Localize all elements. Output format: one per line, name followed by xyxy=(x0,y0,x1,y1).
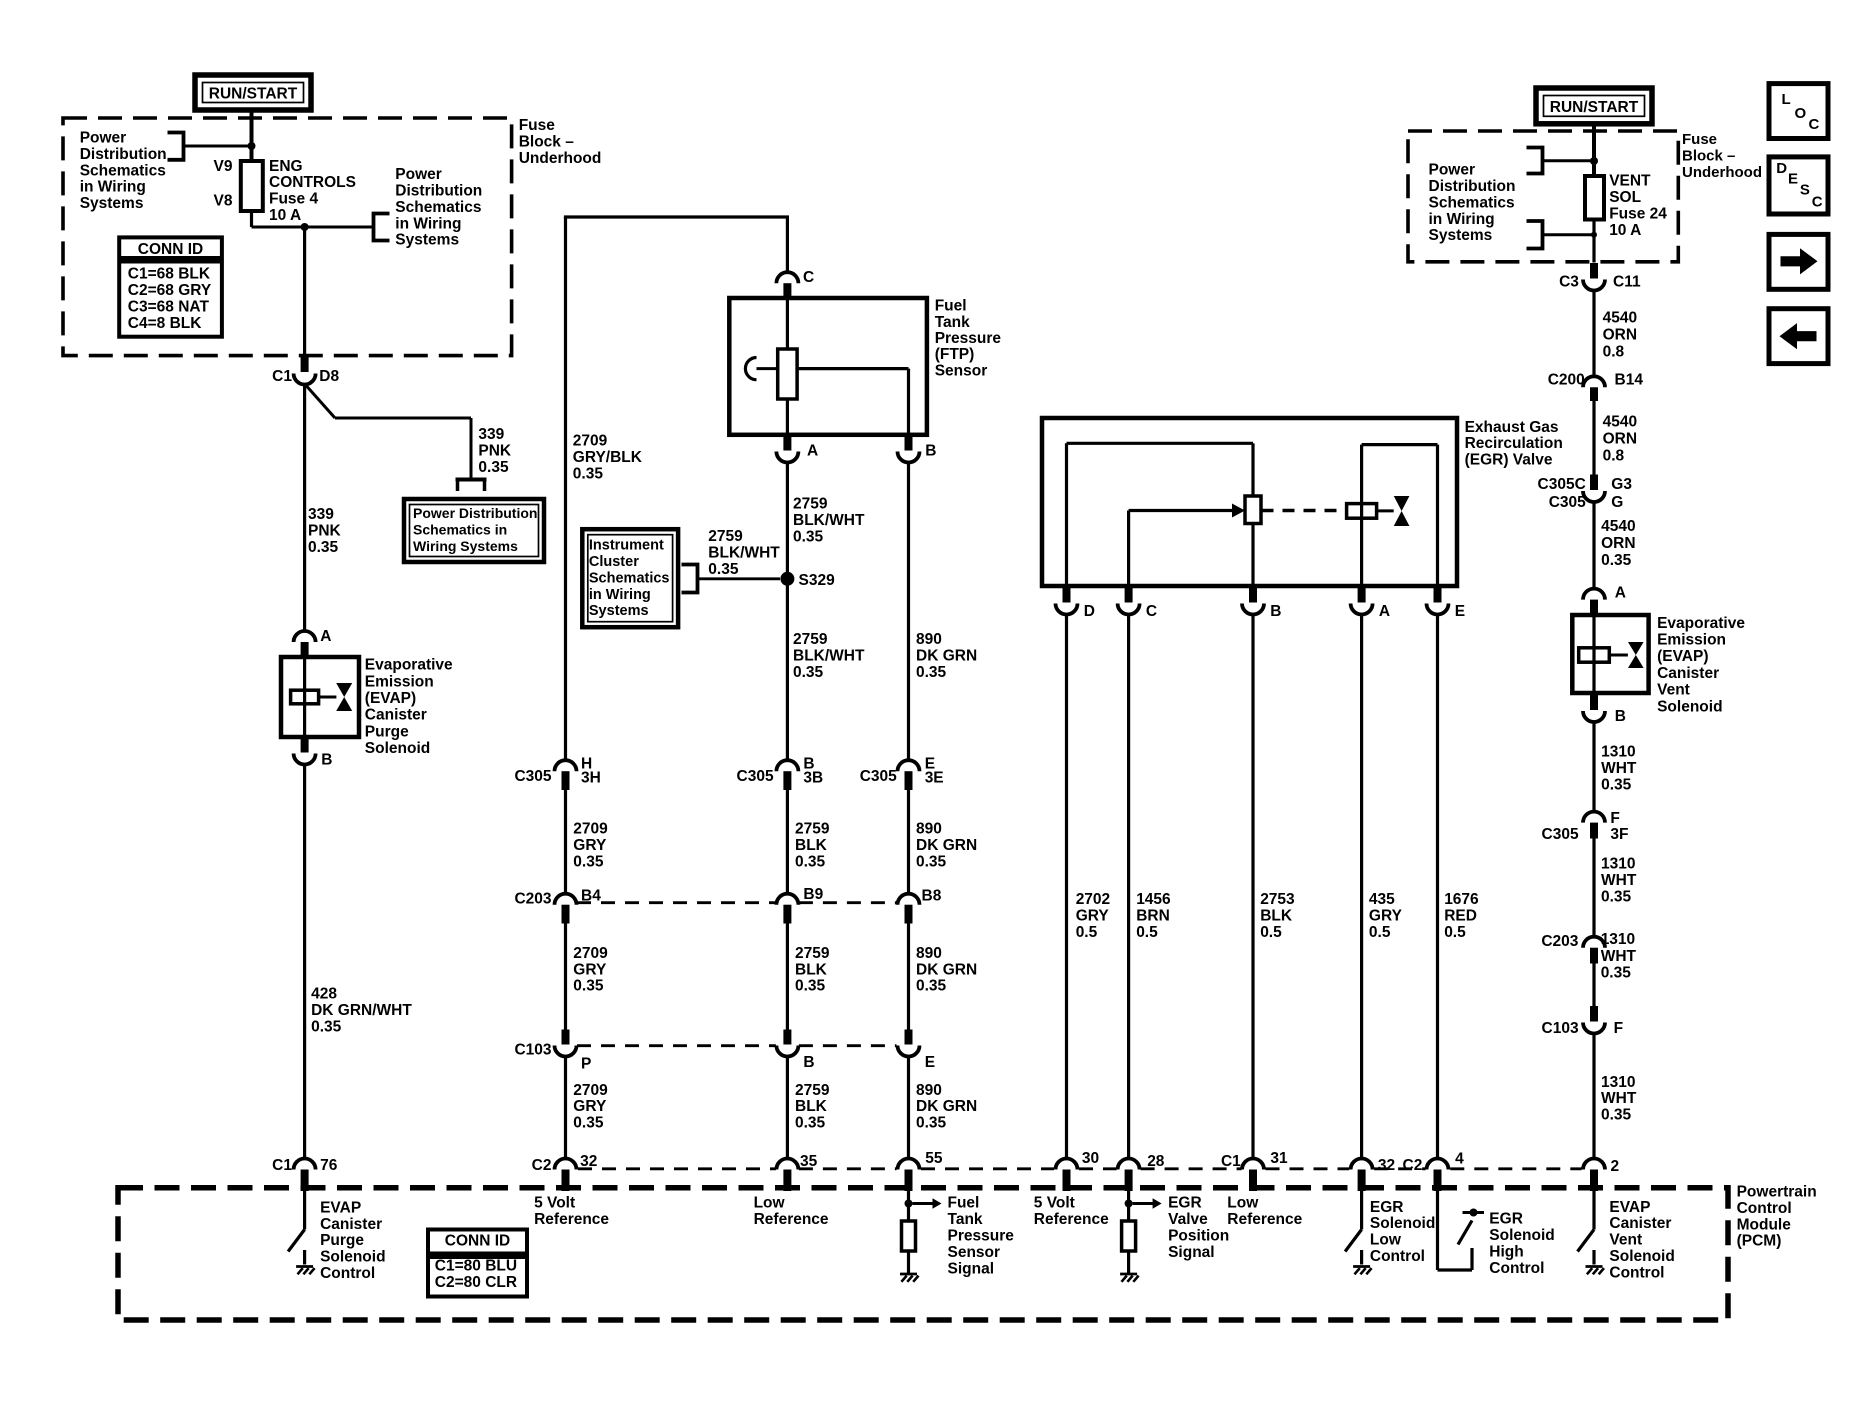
svg-text:Fuse: Fuse xyxy=(1682,131,1717,148)
svg-text:Power: Power xyxy=(1429,162,1476,179)
svg-text:Control: Control xyxy=(1737,1200,1792,1217)
svg-text:0.5: 0.5 xyxy=(1369,924,1391,941)
svg-text:B: B xyxy=(1615,708,1626,725)
svg-text:2709: 2709 xyxy=(573,1082,608,1099)
svg-text:C1: C1 xyxy=(272,1157,292,1174)
svg-text:76: 76 xyxy=(320,1157,338,1174)
svg-text:55: 55 xyxy=(925,1150,943,1167)
svg-text:PNK: PNK xyxy=(308,523,342,540)
svg-text:Canister: Canister xyxy=(320,1216,382,1233)
svg-text:0.35: 0.35 xyxy=(311,1018,342,1035)
svg-text:0.35: 0.35 xyxy=(793,664,824,681)
svg-text:0.5: 0.5 xyxy=(1260,924,1282,941)
svg-text:0.35: 0.35 xyxy=(573,465,604,482)
svg-text:B: B xyxy=(321,752,332,769)
svg-text:Systems: Systems xyxy=(1429,227,1493,244)
svg-text:Block –: Block – xyxy=(519,133,575,150)
svg-text:C2: C2 xyxy=(532,1157,552,1174)
svg-text:Solenoid: Solenoid xyxy=(1609,1248,1674,1265)
svg-text:CONN ID: CONN ID xyxy=(138,241,203,258)
svg-text:890: 890 xyxy=(916,1082,942,1099)
svg-text:WHT: WHT xyxy=(1601,948,1637,965)
svg-text:Control: Control xyxy=(1489,1260,1544,1277)
svg-text:C200: C200 xyxy=(1548,371,1585,388)
svg-text:Tank: Tank xyxy=(948,1211,983,1228)
svg-text:C1: C1 xyxy=(1221,1153,1241,1170)
svg-text:VENT: VENT xyxy=(1609,173,1651,190)
svg-text:Low: Low xyxy=(1370,1232,1402,1249)
svg-text:4540: 4540 xyxy=(1601,518,1635,535)
svg-text:5 Volt: 5 Volt xyxy=(1034,1195,1075,1212)
svg-text:ORN: ORN xyxy=(1601,535,1635,552)
svg-text:GRY: GRY xyxy=(573,961,607,978)
svg-text:Pressure: Pressure xyxy=(935,330,1002,347)
svg-text:Signal: Signal xyxy=(1168,1244,1215,1261)
svg-text:0.35: 0.35 xyxy=(1601,888,1632,905)
svg-text:Schematics: Schematics xyxy=(395,199,481,216)
svg-text:Solenoid: Solenoid xyxy=(365,740,430,757)
svg-text:PNK: PNK xyxy=(478,443,512,460)
svg-text:EVAP: EVAP xyxy=(1609,1199,1650,1216)
svg-text:O: O xyxy=(1795,105,1807,122)
svg-text:B: B xyxy=(803,1054,814,1071)
svg-text:0.35: 0.35 xyxy=(916,1115,947,1132)
svg-text:BLK: BLK xyxy=(795,961,828,978)
svg-text:ORN: ORN xyxy=(1603,327,1637,344)
svg-text:in Wiring: in Wiring xyxy=(80,179,146,196)
svg-text:E: E xyxy=(1788,171,1798,188)
svg-text:EGR: EGR xyxy=(1489,1211,1523,1228)
svg-text:ORN: ORN xyxy=(1603,431,1637,448)
svg-text:Reference: Reference xyxy=(1227,1211,1302,1228)
svg-text:WHT: WHT xyxy=(1601,872,1637,889)
svg-text:in Wiring: in Wiring xyxy=(1429,211,1495,228)
svg-text:B: B xyxy=(1270,603,1281,620)
svg-text:0.5: 0.5 xyxy=(1076,924,1098,941)
svg-text:2759: 2759 xyxy=(795,945,830,962)
svg-text:Distribution: Distribution xyxy=(395,183,482,200)
svg-text:Systems: Systems xyxy=(589,603,649,619)
svg-text:Schematics: Schematics xyxy=(80,162,166,179)
svg-text:0.35: 0.35 xyxy=(308,539,339,556)
svg-text:P: P xyxy=(581,1055,591,1072)
svg-text:D8: D8 xyxy=(319,368,339,385)
svg-text:C3=68 NAT: C3=68 NAT xyxy=(128,299,210,316)
svg-text:C305: C305 xyxy=(1549,494,1586,511)
svg-text:C2=80 CLR: C2=80 CLR xyxy=(435,1274,517,1291)
svg-text:BLK/WHT: BLK/WHT xyxy=(793,648,865,665)
svg-text:0.35: 0.35 xyxy=(1601,552,1632,569)
svg-text:RUN/START: RUN/START xyxy=(1550,99,1639,116)
svg-text:0.5: 0.5 xyxy=(1136,924,1158,941)
svg-text:D: D xyxy=(1776,160,1787,177)
svg-text:C203: C203 xyxy=(1541,933,1578,950)
svg-text:435: 435 xyxy=(1369,891,1395,908)
svg-text:2709: 2709 xyxy=(573,945,608,962)
svg-text:Control: Control xyxy=(1370,1248,1425,1265)
svg-text:Vent: Vent xyxy=(1609,1232,1642,1249)
svg-text:Cluster: Cluster xyxy=(589,554,639,570)
svg-text:Valve: Valve xyxy=(1168,1211,1208,1228)
svg-text:C103: C103 xyxy=(514,1041,551,1058)
svg-text:(EVAP): (EVAP) xyxy=(1657,648,1708,665)
svg-text:Instrument: Instrument xyxy=(589,538,664,554)
svg-text:890: 890 xyxy=(916,631,942,648)
svg-text:0.35: 0.35 xyxy=(573,978,604,995)
svg-text:C103: C103 xyxy=(1542,1020,1579,1037)
svg-text:2753: 2753 xyxy=(1260,891,1295,908)
svg-text:in Wiring: in Wiring xyxy=(395,215,461,232)
svg-text:0.35: 0.35 xyxy=(795,978,826,995)
svg-text:F: F xyxy=(1610,810,1619,827)
svg-text:C203: C203 xyxy=(514,891,551,908)
svg-text:C305C: C305C xyxy=(1538,476,1586,493)
svg-text:CONTROLS: CONTROLS xyxy=(269,174,356,191)
svg-text:0.35: 0.35 xyxy=(916,853,947,870)
svg-text:0.35: 0.35 xyxy=(708,561,739,578)
svg-text:Exhaust Gas: Exhaust Gas xyxy=(1465,419,1559,436)
svg-text:Wiring Systems: Wiring Systems xyxy=(413,538,518,554)
svg-text:Power: Power xyxy=(80,130,127,147)
svg-text:WHT: WHT xyxy=(1601,760,1637,777)
svg-text:Low: Low xyxy=(754,1195,786,1212)
svg-text:RUN/START: RUN/START xyxy=(209,86,298,103)
svg-text:339: 339 xyxy=(478,426,504,443)
svg-text:WHT: WHT xyxy=(1601,1090,1637,1107)
svg-text:4540: 4540 xyxy=(1603,414,1637,431)
svg-text:Vent: Vent xyxy=(1657,682,1690,699)
svg-text:RED: RED xyxy=(1444,907,1477,924)
svg-text:0.35: 0.35 xyxy=(478,459,509,476)
svg-text:0.35: 0.35 xyxy=(795,853,826,870)
svg-text:BLK/WHT: BLK/WHT xyxy=(793,512,865,529)
svg-text:Sensor: Sensor xyxy=(935,362,988,379)
svg-text:GRY: GRY xyxy=(573,837,607,854)
svg-text:Sensor: Sensor xyxy=(948,1244,1001,1261)
svg-text:Signal: Signal xyxy=(948,1260,995,1277)
svg-text:Underhood: Underhood xyxy=(1682,164,1762,181)
svg-text:A: A xyxy=(320,628,331,645)
svg-text:E: E xyxy=(1455,603,1465,620)
svg-text:C3: C3 xyxy=(1559,274,1579,291)
svg-text:Tank: Tank xyxy=(935,314,970,331)
svg-text:1310: 1310 xyxy=(1601,744,1635,761)
svg-text:Recirculation: Recirculation xyxy=(1465,435,1563,452)
svg-text:E: E xyxy=(925,1054,935,1071)
svg-text:F: F xyxy=(1614,1020,1623,1037)
svg-text:C1=68 BLK: C1=68 BLK xyxy=(128,265,211,282)
svg-text:31: 31 xyxy=(1270,1150,1288,1167)
svg-text:32: 32 xyxy=(1378,1157,1395,1174)
svg-text:2759: 2759 xyxy=(795,821,830,838)
svg-text:EGR: EGR xyxy=(1168,1195,1202,1212)
svg-text:4: 4 xyxy=(1455,1151,1464,1168)
svg-text:Fuse 24: Fuse 24 xyxy=(1609,206,1667,223)
svg-text:DK GRN: DK GRN xyxy=(916,648,977,665)
svg-text:Emission: Emission xyxy=(1657,632,1726,649)
svg-text:Solenoid: Solenoid xyxy=(1370,1215,1435,1232)
svg-text:BLK/WHT: BLK/WHT xyxy=(708,545,780,562)
svg-text:1456: 1456 xyxy=(1136,891,1171,908)
svg-text:Distribution: Distribution xyxy=(1429,178,1516,195)
svg-text:Schematics: Schematics xyxy=(1429,194,1515,211)
svg-text:Canister: Canister xyxy=(365,707,427,724)
svg-text:Purge: Purge xyxy=(365,723,409,740)
svg-text:0.5: 0.5 xyxy=(1444,924,1466,941)
svg-text:A: A xyxy=(1615,585,1626,602)
svg-text:GRY: GRY xyxy=(1076,907,1110,924)
svg-text:Underhood: Underhood xyxy=(519,150,602,167)
svg-text:B14: B14 xyxy=(1615,371,1644,388)
svg-text:0.35: 0.35 xyxy=(573,853,604,870)
svg-text:2759: 2759 xyxy=(708,528,743,545)
svg-text:10 A: 10 A xyxy=(269,207,301,224)
svg-text:GRY: GRY xyxy=(573,1098,607,1115)
svg-text:(PCM): (PCM) xyxy=(1737,1233,1782,1250)
svg-text:Block –: Block – xyxy=(1682,148,1735,165)
svg-text:Fuel: Fuel xyxy=(935,298,967,315)
svg-text:30: 30 xyxy=(1082,1150,1099,1167)
svg-text:SOL: SOL xyxy=(1609,189,1641,206)
svg-text:Solenoid: Solenoid xyxy=(1489,1227,1554,1244)
svg-text:5 Volt: 5 Volt xyxy=(534,1195,575,1212)
svg-text:2709: 2709 xyxy=(573,433,608,450)
svg-text:3E: 3E xyxy=(925,769,944,786)
svg-text:DK GRN/WHT: DK GRN/WHT xyxy=(311,1002,412,1019)
svg-text:Distribution: Distribution xyxy=(80,146,167,163)
svg-text:28: 28 xyxy=(1147,1153,1165,1170)
svg-text:C11: C11 xyxy=(1613,274,1641,291)
svg-text:3B: 3B xyxy=(803,769,823,786)
svg-text:C305: C305 xyxy=(514,768,551,785)
svg-text:1676: 1676 xyxy=(1444,891,1479,908)
svg-text:V8: V8 xyxy=(214,193,233,210)
svg-text:3H: 3H xyxy=(581,769,601,786)
svg-text:L: L xyxy=(1782,91,1791,108)
svg-text:BLK: BLK xyxy=(1260,907,1293,924)
svg-text:C1=80 BLU: C1=80 BLU xyxy=(435,1258,517,1275)
svg-text:0.8: 0.8 xyxy=(1603,344,1625,361)
svg-text:428: 428 xyxy=(311,986,337,1003)
svg-text:S: S xyxy=(1800,182,1810,199)
svg-text:Module: Module xyxy=(1737,1216,1792,1233)
svg-text:GRY: GRY xyxy=(1369,907,1403,924)
svg-text:B: B xyxy=(925,443,936,460)
svg-text:EVAP: EVAP xyxy=(320,1199,361,1216)
svg-text:2: 2 xyxy=(1611,1158,1620,1175)
svg-text:C305: C305 xyxy=(860,768,897,785)
svg-text:Control: Control xyxy=(1609,1264,1664,1281)
svg-text:in Wiring: in Wiring xyxy=(589,587,651,603)
svg-text:(EGR) Valve: (EGR) Valve xyxy=(1465,452,1553,469)
svg-text:4540: 4540 xyxy=(1603,310,1637,327)
svg-text:32: 32 xyxy=(580,1153,597,1170)
svg-text:C1: C1 xyxy=(272,368,292,385)
svg-text:0.35: 0.35 xyxy=(1601,777,1632,794)
svg-text:Canister: Canister xyxy=(1609,1215,1671,1232)
svg-text:Evaporative: Evaporative xyxy=(365,657,453,674)
svg-text:D: D xyxy=(1084,603,1095,620)
svg-text:2759: 2759 xyxy=(793,496,828,513)
svg-text:Powertrain: Powertrain xyxy=(1737,1184,1817,1201)
svg-text:0.35: 0.35 xyxy=(1601,965,1632,982)
svg-text:CONN ID: CONN ID xyxy=(445,1232,510,1249)
svg-text:BLK: BLK xyxy=(795,837,828,854)
svg-text:Evaporative: Evaporative xyxy=(1657,615,1745,632)
svg-text:High: High xyxy=(1489,1243,1523,1260)
svg-text:Position: Position xyxy=(1168,1228,1229,1245)
svg-text:Reference: Reference xyxy=(534,1211,609,1228)
svg-text:BRN: BRN xyxy=(1136,907,1170,924)
svg-text:Systems: Systems xyxy=(80,195,144,212)
svg-text:Canister: Canister xyxy=(1657,665,1719,682)
svg-text:0.35: 0.35 xyxy=(573,1115,604,1132)
svg-text:Power Distribution: Power Distribution xyxy=(413,505,537,521)
svg-text:Low: Low xyxy=(1227,1195,1259,1212)
svg-text:C2: C2 xyxy=(1403,1157,1423,1174)
svg-text:C: C xyxy=(1812,193,1823,210)
svg-text:(EVAP): (EVAP) xyxy=(365,690,416,707)
svg-text:C2=68 GRY: C2=68 GRY xyxy=(128,282,212,299)
svg-text:Solenoid: Solenoid xyxy=(320,1249,385,1266)
svg-text:Reference: Reference xyxy=(1034,1211,1109,1228)
svg-text:0.35: 0.35 xyxy=(795,1115,826,1132)
svg-text:(FTP): (FTP) xyxy=(935,346,975,363)
svg-text:Fuse: Fuse xyxy=(519,117,556,134)
svg-text:Reference: Reference xyxy=(754,1211,829,1228)
svg-text:G3: G3 xyxy=(1611,476,1632,493)
svg-text:0.8: 0.8 xyxy=(1603,448,1625,465)
svg-text:1310: 1310 xyxy=(1601,856,1635,873)
svg-text:2759: 2759 xyxy=(795,1082,830,1099)
svg-text:1310: 1310 xyxy=(1601,1074,1635,1091)
svg-text:S329: S329 xyxy=(799,572,836,589)
svg-text:890: 890 xyxy=(916,945,942,962)
svg-text:BLK: BLK xyxy=(795,1098,828,1115)
svg-text:EGR: EGR xyxy=(1370,1199,1404,1216)
svg-text:DK GRN: DK GRN xyxy=(916,837,977,854)
svg-text:Power: Power xyxy=(395,166,442,183)
svg-text:Purge: Purge xyxy=(320,1232,364,1249)
svg-text:1310: 1310 xyxy=(1601,931,1635,948)
svg-text:890: 890 xyxy=(916,821,942,838)
svg-text:GRY/BLK: GRY/BLK xyxy=(573,449,643,466)
svg-text:V9: V9 xyxy=(214,158,233,175)
svg-text:35: 35 xyxy=(800,1153,818,1170)
svg-text:C4=8 BLK: C4=8 BLK xyxy=(128,315,202,332)
svg-text:Fuse 4: Fuse 4 xyxy=(269,191,318,208)
svg-text:10 A: 10 A xyxy=(1609,222,1641,239)
svg-text:DK GRN: DK GRN xyxy=(916,1098,977,1115)
svg-text:ENG: ENG xyxy=(269,158,303,175)
svg-text:B9: B9 xyxy=(803,886,823,903)
svg-text:Schematics in: Schematics in xyxy=(413,521,507,537)
svg-text:0.35: 0.35 xyxy=(916,664,947,681)
svg-text:Systems: Systems xyxy=(395,232,459,249)
svg-text:Schematics: Schematics xyxy=(589,570,670,586)
svg-text:C305: C305 xyxy=(737,768,774,785)
svg-text:339: 339 xyxy=(308,506,334,523)
svg-text:2759: 2759 xyxy=(793,631,828,648)
svg-text:Solenoid: Solenoid xyxy=(1657,698,1722,715)
svg-text:G: G xyxy=(1611,494,1623,511)
svg-text:3F: 3F xyxy=(1610,826,1628,843)
svg-text:A: A xyxy=(807,443,818,460)
svg-text:2709: 2709 xyxy=(573,821,608,838)
svg-text:Emission: Emission xyxy=(365,673,434,690)
svg-text:B8: B8 xyxy=(922,887,942,904)
svg-text:Fuel: Fuel xyxy=(948,1195,980,1212)
svg-text:C305: C305 xyxy=(1542,826,1579,843)
svg-text:Control: Control xyxy=(320,1265,375,1282)
svg-text:0.35: 0.35 xyxy=(1601,1107,1632,1124)
svg-text:C: C xyxy=(1146,603,1157,620)
svg-text:0.35: 0.35 xyxy=(793,528,824,545)
svg-text:Pressure: Pressure xyxy=(948,1228,1015,1245)
svg-text:C: C xyxy=(803,269,814,286)
svg-text:C: C xyxy=(1809,116,1820,133)
svg-text:2702: 2702 xyxy=(1076,891,1110,908)
svg-text:DK GRN: DK GRN xyxy=(916,961,977,978)
svg-text:0.35: 0.35 xyxy=(916,978,947,995)
svg-text:A: A xyxy=(1379,603,1390,620)
